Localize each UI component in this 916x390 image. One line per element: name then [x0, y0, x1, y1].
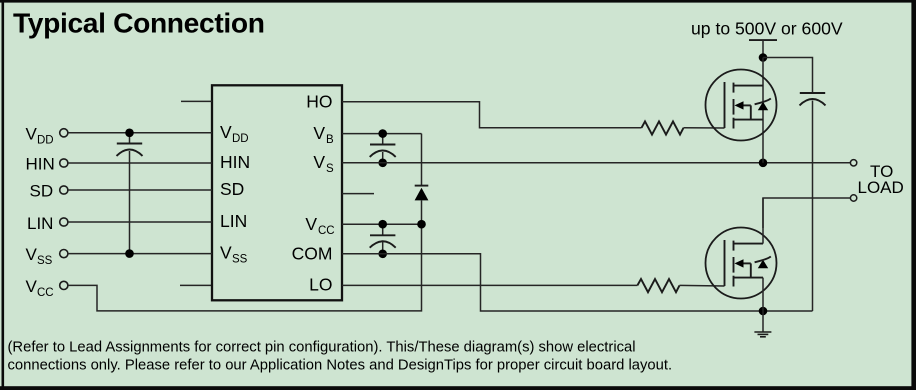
pin label VDD (inside)	[220, 122, 249, 145]
svg-text:LOAD: LOAD	[858, 178, 904, 197]
wire HO route	[342, 102, 642, 128]
power rail bar up to 500/600V	[749, 40, 777, 57]
pin label VB (inside)	[313, 123, 334, 146]
terminal HIN open circle	[60, 159, 68, 167]
capacitor C4 bus	[800, 93, 826, 311]
svg-text:V: V	[26, 124, 38, 143]
wire VDD to IC	[68, 132, 212, 134]
wire R2 to gate	[680, 284, 725, 287]
svg-text:CC: CC	[318, 225, 335, 237]
terminal label VCC (left)	[26, 277, 54, 299]
wire rail to bus cap	[763, 58, 813, 94]
wire VCC pin	[342, 223, 422, 225]
wire LS drain vertical	[762, 198, 764, 244]
svg-text:HIN: HIN	[220, 152, 250, 172]
wire SD to IC	[68, 189, 212, 191]
junction dot VDD/C1	[125, 129, 134, 138]
terminal TO LOAD lower open circle	[850, 195, 856, 201]
pin label VCC (inside)	[305, 214, 334, 237]
junction dot VB/C2	[378, 129, 387, 138]
IC box U1	[212, 85, 342, 300]
terminal label VSS (left)	[26, 245, 53, 267]
terminal TO LOAD upper open circle	[850, 160, 856, 166]
wire load return to LS drain	[763, 198, 850, 228]
svg-text:DD: DD	[232, 133, 249, 145]
svg-text:CC: CC	[37, 287, 54, 299]
wire LS source to ground	[762, 278, 764, 311]
svg-text:DD: DD	[37, 134, 54, 146]
junction dot VCC/D1 anode	[417, 220, 426, 229]
wire HS drain from rail	[762, 58, 764, 163]
transistor Q1 high-side MOSFET	[706, 70, 777, 141]
junction dot ground / LS source	[759, 307, 768, 316]
terminal VSS open circle	[60, 250, 68, 258]
stub right VS-VCC	[342, 193, 374, 195]
svg-text:Typical Connection: Typical Connection	[13, 7, 265, 39]
wire LO to resistor	[342, 284, 637, 286]
svg-text:V: V	[26, 245, 38, 264]
capacitor C2 bootstrap VB-VS	[370, 134, 396, 163]
junction dot VCC/C3	[378, 220, 387, 229]
svg-text:B: B	[326, 134, 334, 146]
junction dot VSS/C1	[125, 249, 134, 258]
svg-text:V: V	[313, 123, 325, 143]
svg-text:V: V	[313, 152, 325, 172]
svg-text:V: V	[220, 122, 232, 142]
wire LIN to IC	[68, 221, 212, 223]
svg-text:COM: COM	[292, 243, 333, 263]
svg-text:V: V	[220, 242, 232, 262]
svg-text:SS: SS	[37, 255, 53, 267]
wire VS to load	[342, 162, 850, 164]
terminal label VDD (left)	[26, 124, 54, 146]
pin label VSS (inside)	[220, 242, 248, 265]
diode D1 bootstrap	[415, 134, 429, 225]
junction dot VS / HS source	[759, 159, 768, 168]
svg-text:HIN: HIN	[26, 155, 55, 174]
svg-text:SD: SD	[30, 182, 54, 201]
resistor R1 (high side gate)	[642, 121, 684, 134]
resistor R2 (low side gate)	[637, 279, 679, 292]
svg-text:SD: SD	[220, 179, 244, 199]
terminal LIN open circle	[60, 218, 68, 226]
stub left top	[181, 100, 212, 102]
svg-text:HO: HO	[306, 91, 332, 111]
svg-text:S: S	[326, 163, 334, 175]
capacitor C1 VDD-VSS	[117, 133, 143, 254]
svg-text:LIN: LIN	[27, 214, 53, 233]
pin label VS (inside)	[313, 152, 334, 175]
wire HIN to IC	[68, 162, 212, 164]
wire R1 to gate	[684, 127, 725, 129]
svg-text:connections only. Please refe: connections only. Please refer to our Ap…	[8, 358, 673, 374]
capacitor C3 VCC-COM	[370, 224, 396, 254]
junction dot VS/C2	[378, 159, 387, 168]
wire VSS to IC	[68, 253, 212, 255]
svg-text:LO: LO	[309, 274, 332, 294]
wire VB	[342, 133, 422, 135]
junction dot rail	[759, 53, 768, 62]
junction dot COM/C3	[378, 250, 387, 259]
terminal SD open circle	[60, 186, 68, 194]
svg-text:up to 500V or 600V: up to 500V or 600V	[691, 19, 843, 39]
stub left bottom	[180, 284, 211, 286]
svg-text:V: V	[305, 214, 317, 234]
wire VCC left route	[68, 224, 422, 311]
svg-text:SS: SS	[232, 253, 248, 265]
terminal VCC open circle	[60, 281, 68, 289]
svg-text:(Refer to Lead Assignments for: (Refer to Lead Assignments for correct p…	[8, 340, 636, 356]
ground symbol	[754, 311, 771, 337]
svg-text:V: V	[26, 277, 38, 296]
terminal VDD open circle	[60, 129, 68, 137]
svg-text:LIN: LIN	[220, 211, 247, 231]
wire COM route to ground rail	[342, 254, 813, 311]
transistor Q2 low-side MOSFET	[706, 228, 777, 299]
